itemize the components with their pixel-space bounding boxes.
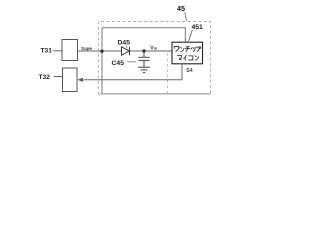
マ [177, 56, 182, 60]
connector box for T31 [62, 40, 78, 61]
wire: top bypass line [102, 28, 185, 42]
チ [185, 47, 190, 52]
diode D45 [122, 47, 130, 55]
arrowhead into T32 box [77, 78, 83, 82]
leader for 45 [185, 12, 187, 20]
svg-text:S4: S4 [186, 68, 192, 74]
dashed box 45 (power supply unit outline) [99, 22, 211, 95]
wire: micro output down and left to T32 [84, 64, 182, 80]
text: wan-chippu maikon (drawn strokes) [174, 47, 201, 61]
one-chip microcontroller box U451 [172, 42, 203, 64]
svg-text:Sape: Sape [81, 46, 92, 51]
leader for C45 [128, 61, 137, 63]
leader from T32 [54, 76, 63, 78]
wire: main supply line T31 box to micro Vin [78, 50, 173, 52]
inner dashed vertical boundary [167, 53, 169, 94]
ground symbol [138, 67, 150, 72]
wire: vertical feed through junction [101, 28, 103, 94]
svg-text:D45: D45 [118, 39, 131, 46]
leader for 451 [189, 30, 193, 41]
junction node A [100, 50, 103, 53]
ワ [174, 47, 179, 52]
leader from T31 [53, 50, 62, 52]
コ [189, 56, 193, 60]
svg-text:T32: T32 [39, 74, 51, 81]
プ [196, 47, 201, 52]
ン [180, 47, 184, 51]
connector box for T32 [63, 68, 78, 92]
junction node B [142, 49, 145, 52]
イ [184, 55, 187, 60]
svg-text:45: 45 [177, 4, 185, 13]
leader for D45 [126, 45, 127, 48]
svg-text:C45: C45 [112, 60, 125, 67]
ン [195, 56, 199, 60]
svg-text:451: 451 [192, 24, 204, 31]
ground return line (bottom) [98, 93, 211, 95]
ッ [191, 47, 195, 51]
svg-text:T31: T31 [41, 48, 53, 55]
capacitor C45 [139, 51, 150, 67]
